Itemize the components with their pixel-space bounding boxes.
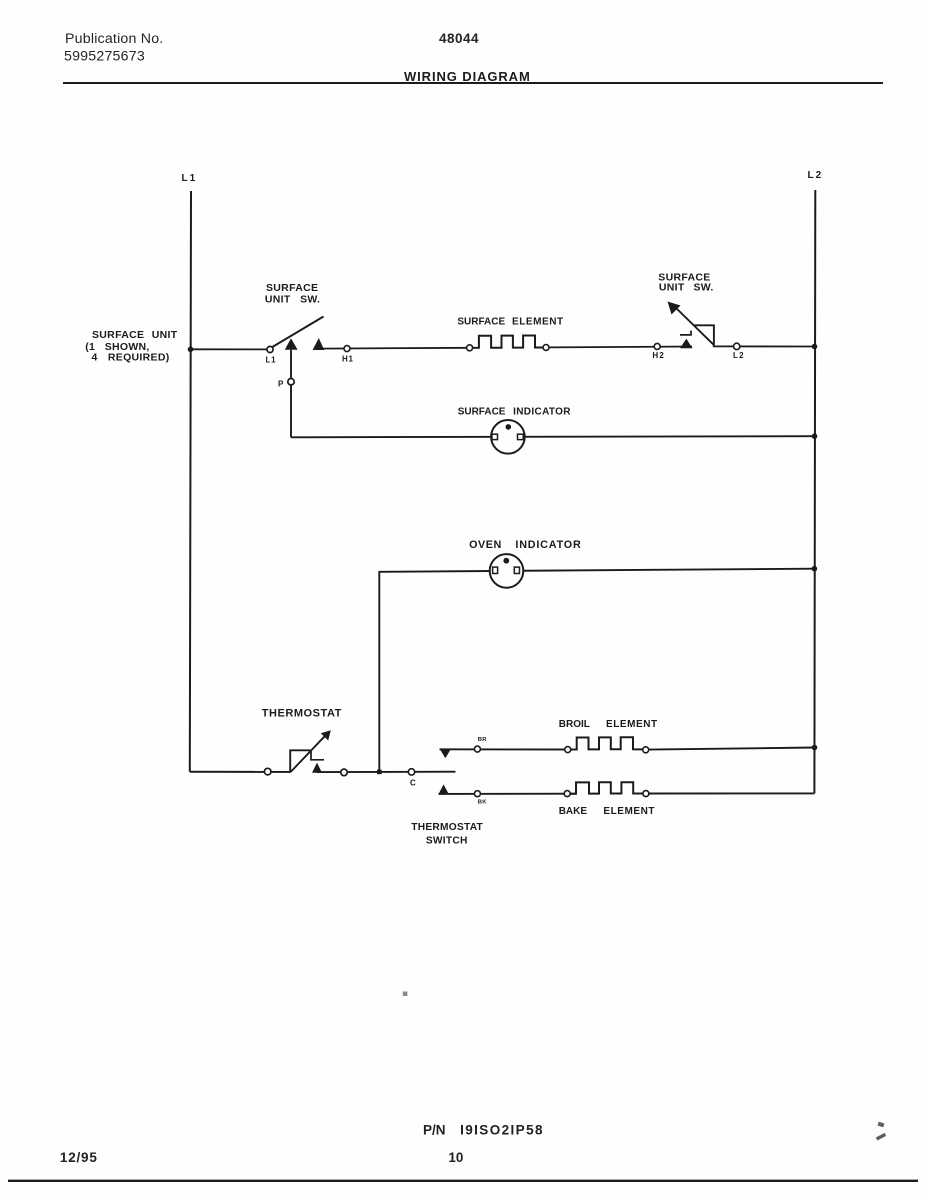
switch S2 blade arrowhead bbox=[668, 302, 681, 315]
switch S2 flag bbox=[694, 325, 714, 345]
svg-text:BROILELEMENT: BROILELEMENT bbox=[559, 719, 658, 730]
thermostat step bbox=[290, 750, 310, 772]
junction: L1 bus / surface wire bbox=[188, 347, 194, 353]
svg-text:L2: L2 bbox=[733, 351, 745, 360]
svg-text:WIRING DIAGRAM: WIRING DIAGRAM bbox=[404, 69, 531, 84]
bake element terminal circle (left) bbox=[564, 791, 570, 797]
broil element terminal circle (right) bbox=[643, 747, 649, 753]
wire: P drop bbox=[290, 350, 292, 438]
wire: L1 corner to thermostat bbox=[190, 771, 291, 773]
terminal circle H2 bbox=[654, 343, 660, 349]
svg-text:SURFACE: SURFACE bbox=[266, 282, 318, 294]
thermostat blade bbox=[291, 734, 327, 772]
surface element terminal circle (left) bbox=[467, 345, 473, 351]
wire: S2 flag to L2 bus bbox=[713, 345, 815, 347]
svg-text:L1: L1 bbox=[266, 356, 277, 365]
thermostat terminal circle (left) bbox=[264, 768, 271, 775]
thermostat switch contact arrow BK bbox=[438, 784, 448, 794]
svg-text:SURFACEINDICATOR: SURFACEINDICATOR bbox=[458, 406, 572, 417]
svg-text:SURFACEELEMENT: SURFACEELEMENT bbox=[457, 317, 563, 328]
svg-text:L2: L2 bbox=[808, 170, 824, 181]
svg-text:H1: H1 bbox=[342, 355, 354, 364]
svg-text:SURFACEUNIT: SURFACEUNIT bbox=[92, 329, 178, 341]
thermostat switch contact arrow BR bbox=[440, 749, 451, 758]
terminal circle C bbox=[408, 769, 414, 775]
wire: surface element to H2 bbox=[549, 346, 692, 349]
junction: oven drop to thermostat wire bbox=[377, 770, 382, 775]
svg-text:Publication No.: Publication No. bbox=[65, 31, 163, 47]
wire: BK to bake element bbox=[439, 793, 577, 795]
thermostat contact arrow bbox=[312, 763, 322, 773]
switch S2 contact arrow (common) bbox=[680, 339, 692, 349]
thermostat terminal circle (right) bbox=[341, 769, 348, 776]
svg-text:BR: BR bbox=[478, 737, 488, 743]
lamp: oven indicator bbox=[490, 554, 524, 588]
switch S2 tick bbox=[680, 331, 691, 335]
svg-text:OVENINDICATOR: OVENINDICATOR bbox=[469, 539, 581, 551]
label: SURFACE UNIT (1 SHOWN, 4 REQUIRED) bbox=[85, 329, 178, 364]
switch S1 contact arrow P bbox=[285, 338, 298, 350]
svg-text:BK: BK bbox=[478, 800, 488, 806]
junction: oven indicator to L2 bus bbox=[812, 566, 818, 572]
label: THERMOSTAT SWITCH bbox=[411, 822, 483, 847]
junction: surface indicator to L2 bus bbox=[812, 433, 818, 439]
svg-text:L1: L1 bbox=[182, 173, 198, 184]
header rule bbox=[63, 82, 883, 84]
svg-text:P: P bbox=[278, 380, 284, 389]
broil element terminal circle (left) bbox=[565, 747, 571, 753]
header: publication number bbox=[64, 31, 163, 65]
svg-text:10: 10 bbox=[448, 1150, 463, 1165]
wire: bake element to L2 bus corner bbox=[648, 792, 814, 794]
surface element (resistor) bbox=[466, 336, 549, 348]
label: SURFACE UNIT SW. (left) bbox=[265, 282, 320, 305]
thermostat blade arrowhead bbox=[321, 730, 331, 740]
svg-text:UNITSW.: UNITSW. bbox=[265, 293, 320, 305]
svg-text:H2: H2 bbox=[652, 351, 665, 360]
footer: stray pencil mark bbox=[876, 1122, 886, 1141]
switch S1 terminal circle L1 bbox=[267, 346, 273, 352]
terminal circle BR bbox=[474, 746, 480, 752]
switch S2 blade bbox=[675, 307, 715, 346]
svg-text:P/NI9ISO2IP58: P/NI9ISO2IP58 bbox=[423, 1122, 544, 1137]
terminal circle P bbox=[288, 379, 294, 385]
wire: BR to broil element bbox=[440, 748, 577, 750]
wire: H1 to surface element bbox=[319, 347, 470, 350]
svg-text:48044: 48044 bbox=[439, 31, 479, 46]
wire: thermostat to C terminal bbox=[317, 771, 456, 773]
svg-text:THERMOSTAT: THERMOSTAT bbox=[411, 822, 483, 833]
svg-text:THERMOSTAT: THERMOSTAT bbox=[262, 708, 342, 720]
wire: L2 vertical bus bbox=[813, 190, 816, 793]
junction: broil to L2 bus bbox=[812, 745, 818, 751]
wire: L1 bus to switch terminal L1 bbox=[191, 348, 268, 350]
wire: L1 vertical bus bbox=[190, 191, 191, 772]
stray mark (scan speck) bbox=[403, 992, 408, 997]
thermostat anticipator tick bbox=[311, 751, 324, 760]
wire: broil element to L2 bus bbox=[648, 748, 815, 750]
footer rule bbox=[8, 1180, 918, 1182]
wire: P branch to surface indicator to L2 bus bbox=[291, 436, 815, 437]
terminal circle BK bbox=[474, 791, 480, 797]
wire: oven indicator loop bbox=[379, 569, 814, 772]
terminal circle H1 bbox=[344, 346, 350, 352]
switch S1 blade bbox=[272, 317, 324, 348]
broil element (resistor) bbox=[564, 737, 648, 749]
lamp: surface indicator bbox=[491, 420, 525, 454]
switch S1 contact arrow H1 bbox=[313, 338, 325, 350]
svg-text:BAKEELEMENT: BAKEELEMENT bbox=[559, 806, 655, 817]
svg-text:SWITCH: SWITCH bbox=[426, 836, 468, 847]
svg-text:4REQUIRED): 4REQUIRED) bbox=[92, 352, 170, 364]
bake element (resistor) bbox=[564, 782, 648, 794]
svg-text:C: C bbox=[410, 779, 416, 788]
terminal circle L2 bbox=[734, 343, 740, 349]
svg-text:12/95: 12/95 bbox=[60, 1150, 98, 1165]
svg-text:5995275673: 5995275673 bbox=[64, 49, 145, 65]
label: SURFACE UNIT SW. (right) bbox=[658, 271, 713, 293]
bake element terminal circle (right) bbox=[643, 791, 649, 797]
surface element terminal circle (right) bbox=[543, 345, 549, 351]
junction: surface circuit to L2 bus bbox=[812, 344, 818, 350]
